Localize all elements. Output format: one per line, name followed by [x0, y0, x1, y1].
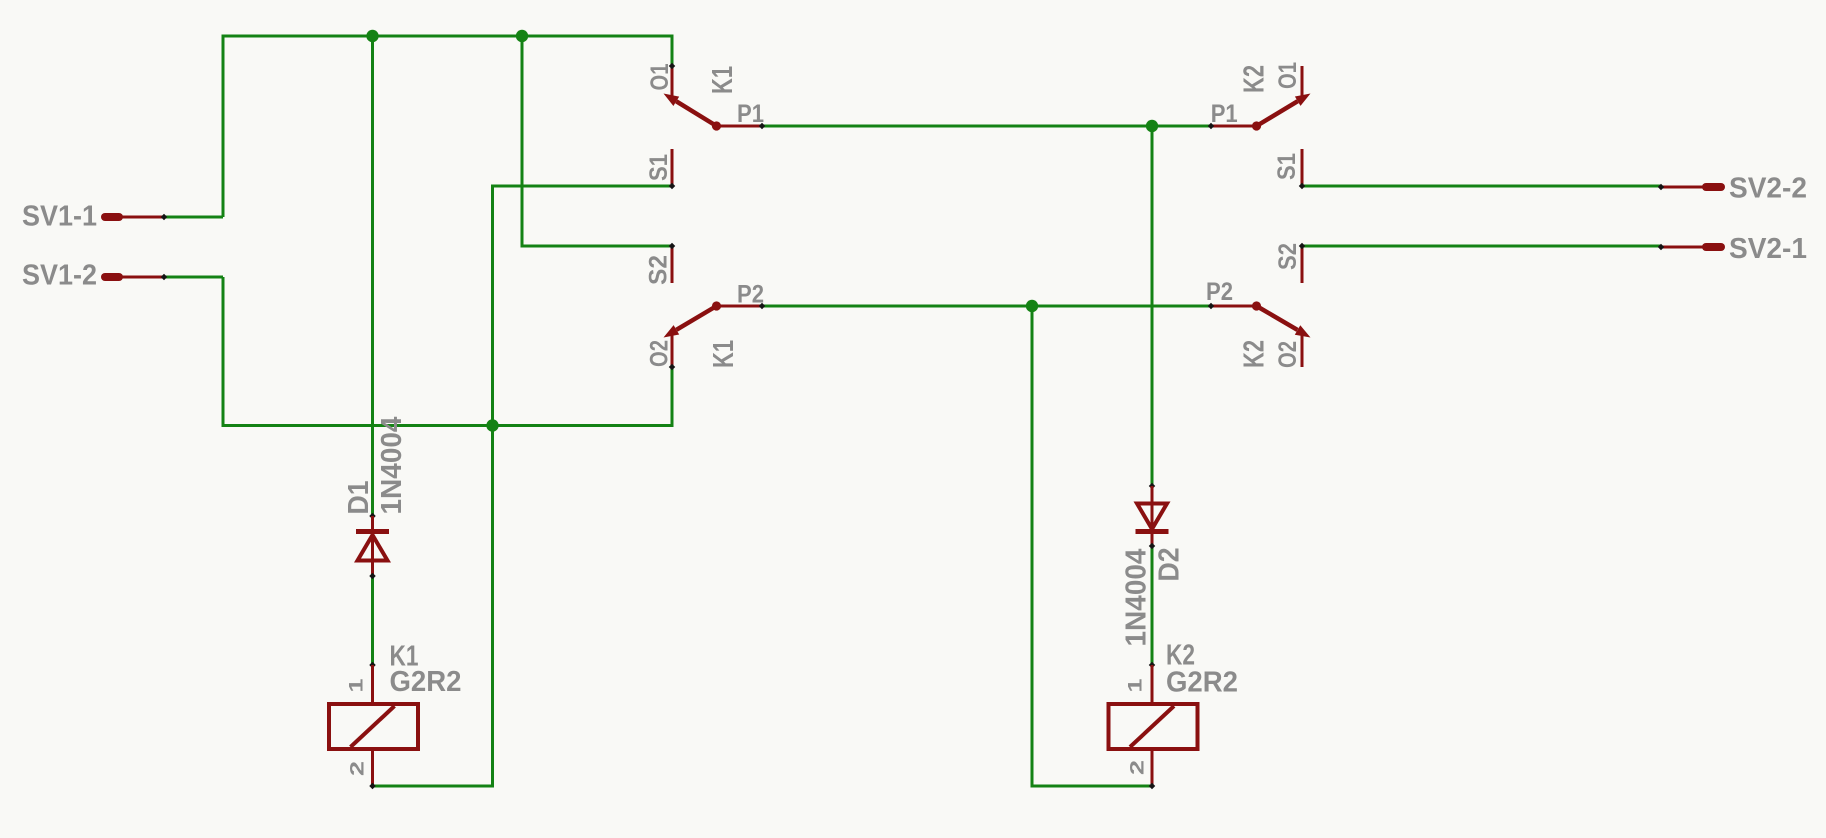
- svg-text:SV1-2: SV1-2: [22, 260, 97, 292]
- svg-text:1N4004: 1N4004: [1121, 549, 1153, 647]
- svg-text:1: 1: [1126, 678, 1147, 693]
- relay K1 contact 1 pin P1: [717, 123, 766, 130]
- svg-text:SV2-2: SV2-2: [1729, 173, 1807, 205]
- relay K1 contact 2 arm: [664, 301, 722, 337]
- relay K2 pin S2: [1299, 243, 1306, 283]
- svg-text:G2R2: G2R2: [1166, 667, 1238, 699]
- relay K1 pin S2: [669, 243, 676, 283]
- relay K2 contact 1 pin O1: [1301, 66, 1304, 97]
- svg-text:2: 2: [1128, 760, 1149, 775]
- svg-text:O2: O2: [1274, 341, 1302, 368]
- svg-text:SV1-1: SV1-1: [22, 201, 97, 233]
- diode D1: [356, 513, 389, 580]
- relay K1 pin S1: [669, 149, 676, 189]
- svg-text:SV2-1: SV2-1: [1729, 233, 1807, 265]
- relay K2 contact 1 arm: [1252, 94, 1311, 131]
- wire P2 branch to K2 coil pin2: [1032, 306, 1152, 786]
- connector pin SV2-2: [1658, 184, 1721, 191]
- svg-text:K1: K1: [707, 66, 739, 94]
- svg-text:D1: D1: [343, 481, 375, 515]
- connector pin SV1-1: [105, 214, 167, 221]
- junction bottom bus: [486, 419, 498, 431]
- svg-text:S1: S1: [1273, 153, 1301, 180]
- wire net SV2-2 from S1 of K2: [1302, 185, 1661, 188]
- diode D2: [1136, 483, 1169, 550]
- wire net SV2-1 from S2 of K2: [1302, 245, 1661, 248]
- wire SV1-1 stub: [163, 216, 223, 219]
- relay K2 contact 2 pin O2: [1301, 331, 1304, 367]
- connector pin SV2-1: [1658, 244, 1721, 251]
- svg-text:P2: P2: [1206, 278, 1233, 306]
- relay K2 pin S1: [1299, 149, 1306, 189]
- junction P2 at K2 coil branch: [1026, 300, 1038, 312]
- svg-text:K2: K2: [1239, 340, 1271, 368]
- relay K2 contact 2 arm: [1252, 301, 1311, 337]
- wire net P2 between K1 and K2: [762, 305, 1211, 308]
- svg-text:S2: S2: [645, 255, 673, 285]
- svg-text:O1: O1: [1274, 62, 1302, 89]
- junction top bus at D1 branch: [366, 30, 378, 42]
- wire branch to D1: [371, 36, 374, 516]
- wire D1 cathode to anode net: [371, 576, 374, 665]
- junction top bus at S2 branch: [516, 30, 528, 42]
- junction P1 at D2 branch: [1146, 120, 1158, 132]
- svg-text:2: 2: [348, 761, 369, 776]
- relay K2 contact 2 pin P2: [1208, 303, 1257, 310]
- wire branch to S2 of K1: [522, 36, 672, 246]
- relay K1 contact 2 pin P2: [717, 303, 766, 310]
- wire D2 to K2 coil pin1: [1151, 546, 1154, 665]
- wire bottom bus net SV1-2: [223, 277, 672, 426]
- svg-text:D2: D2: [1154, 548, 1186, 582]
- svg-text:K1: K1: [708, 340, 740, 368]
- relay K1 contact 1 arm: [664, 94, 722, 131]
- connector pin SV1-2: [105, 274, 167, 281]
- wire top bus net SV1-1: [223, 36, 672, 217]
- relay K1 coil: [329, 662, 418, 790]
- svg-text:1: 1: [347, 678, 368, 693]
- svg-text:K2: K2: [1239, 65, 1271, 93]
- wire net P1 between K1 and K2: [762, 125, 1211, 128]
- svg-text:S1: S1: [645, 154, 673, 181]
- svg-text:P1: P1: [737, 100, 764, 128]
- svg-text:S2: S2: [1274, 243, 1302, 270]
- svg-text:1N4004: 1N4004: [376, 417, 408, 515]
- svg-text:G2R2: G2R2: [390, 666, 462, 698]
- svg-text:O1: O1: [646, 63, 674, 90]
- relay K1 contact 2 pin O2: [669, 331, 676, 370]
- relay K2 contact 1 pin P1: [1208, 123, 1257, 130]
- wire branch P1 to D2: [1151, 126, 1154, 486]
- relay K1 contact 1 pin O1: [669, 63, 676, 97]
- svg-text:P2: P2: [737, 281, 764, 309]
- svg-text:P1: P1: [1211, 100, 1238, 128]
- wire SV1-2 stub: [163, 276, 223, 279]
- wire S1 of K1 to vertical: [373, 186, 673, 786]
- svg-text:O2: O2: [646, 340, 674, 367]
- relay K2 coil: [1109, 662, 1198, 790]
